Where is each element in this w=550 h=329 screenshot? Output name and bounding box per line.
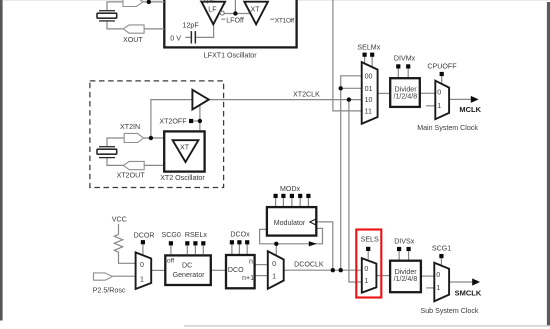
svg-text:SCG0: SCG0 — [162, 231, 181, 239]
svg-text:SCG1: SCG1 — [432, 244, 451, 252]
svg-text:n+1: n+1 — [242, 274, 254, 282]
svg-text:SELMx: SELMx — [357, 43, 380, 51]
svg-text:00: 00 — [365, 72, 373, 80]
svg-text:P2.5/Rosc: P2.5/Rosc — [93, 287, 126, 295]
svg-text:Modulator: Modulator — [274, 219, 306, 227]
svg-text:DIVMx: DIVMx — [394, 55, 416, 63]
svg-text:0 V: 0 V — [170, 34, 181, 42]
svg-text:/1/2/4/8: /1/2/4/8 — [394, 92, 418, 100]
svg-text:MODx: MODx — [280, 185, 301, 193]
svg-text:DIVSx: DIVSx — [394, 238, 415, 246]
svg-text:DCOCLK: DCOCLK — [294, 261, 324, 269]
svg-text:XT: XT — [251, 5, 261, 13]
svg-text:MCLK: MCLK — [459, 105, 481, 114]
svg-text:n: n — [249, 257, 253, 265]
svg-text:XT1Off: XT1Off — [275, 17, 294, 24]
svg-text:XOUT: XOUT — [123, 36, 143, 44]
svg-text:Generator: Generator — [173, 271, 206, 279]
svg-text:0: 0 — [140, 261, 144, 269]
svg-text:XT: XT — [180, 143, 190, 151]
svg-text:1: 1 — [436, 284, 440, 292]
svg-text:LFXT1 Oscillator: LFXT1 Oscillator — [204, 52, 257, 60]
svg-text:0: 0 — [364, 265, 368, 273]
svg-text:DCO: DCO — [228, 266, 244, 274]
svg-text:XT2OUT: XT2OUT — [117, 171, 146, 179]
svg-text:1: 1 — [140, 275, 144, 283]
svg-text:VCC: VCC — [112, 216, 127, 224]
svg-text:11: 11 — [365, 107, 372, 115]
svg-text:0: 0 — [437, 88, 441, 96]
svg-text:LF: LF — [208, 5, 217, 13]
svg-text:1: 1 — [364, 277, 368, 285]
svg-text:1: 1 — [437, 102, 441, 110]
svg-text:12pF: 12pF — [199, 0, 216, 4]
svg-text:XT2 Oscillator: XT2 Oscillator — [160, 174, 205, 182]
svg-text:XT2CLK: XT2CLK — [293, 91, 320, 99]
svg-text:SELS: SELS — [361, 236, 379, 244]
svg-text:12pF: 12pF — [183, 21, 200, 29]
svg-text:CPUOFF: CPUOFF — [427, 63, 457, 71]
svg-text:1: 1 — [272, 272, 276, 280]
svg-text:XT2IN: XT2IN — [120, 123, 140, 131]
svg-text:10: 10 — [365, 96, 373, 104]
svg-text:DC: DC — [182, 261, 192, 269]
svg-text:LFOff: LFOff — [226, 16, 244, 24]
svg-text:RSELx: RSELx — [185, 231, 208, 239]
svg-text:XT2OFF: XT2OFF — [159, 118, 187, 126]
svg-text:DCOx: DCOx — [230, 231, 250, 239]
svg-text:01: 01 — [365, 85, 373, 93]
svg-text:Sub System Clock: Sub System Clock — [421, 307, 479, 315]
svg-text:off: off — [167, 257, 175, 264]
svg-text:DCOR: DCOR — [134, 231, 155, 239]
svg-text:/1/2/4/8: /1/2/4/8 — [394, 275, 418, 283]
svg-text:0: 0 — [272, 260, 276, 268]
svg-text:0: 0 — [436, 271, 440, 279]
svg-text:Main System Clock: Main System Clock — [417, 124, 478, 132]
svg-text:SMCLK: SMCLK — [455, 289, 482, 298]
